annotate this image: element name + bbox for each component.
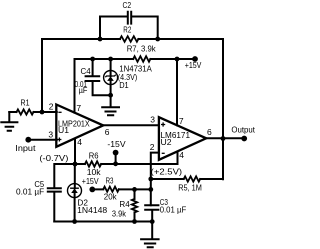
svg-text:0.01 µF: 0.01 µF	[160, 205, 187, 215]
wire: U1 pin7 up to 4.3V rail	[74, 59, 76, 113]
svg-text:Output: Output	[231, 124, 255, 134]
wire: U2 output	[206, 137, 244, 139]
node: R4 bottom	[132, 219, 137, 224]
svg-text:0.01 µF: 0.01 µF	[16, 187, 44, 197]
node: -15V terminal	[113, 150, 119, 156]
svg-text:3: 3	[150, 114, 155, 124]
op-amp U1 LMP201X	[56, 105, 103, 147]
wire: U1 pin4 down	[74, 139, 76, 165]
ground (D1/C4)	[102, 95, 119, 115]
svg-text:U2: U2	[161, 137, 172, 147]
U2 plus mark	[161, 122, 165, 126]
wire: C2 feedback loop top	[100, 17, 158, 40]
resistor R3	[92, 188, 151, 190]
node: -15V junction	[113, 161, 118, 166]
node: C2 right junction	[155, 37, 160, 42]
ground (R1)	[1, 112, 17, 131]
node: D2 bottom junction	[72, 219, 77, 224]
resistor R7	[133, 56, 150, 62]
svg-text:3.9k: 3.9k	[112, 208, 127, 218]
svg-text:20k: 20k	[104, 191, 117, 201]
node: output junction	[221, 136, 226, 141]
wire: 4.3V rail	[75, 58, 196, 60]
svg-text:6: 6	[207, 127, 212, 137]
svg-text:C4: C4	[81, 66, 91, 76]
svg-text:(+2.5V): (+2.5V)	[151, 166, 183, 176]
resistor R5	[184, 176, 201, 181]
node: D1 bottom	[108, 93, 113, 98]
node: R3/R4 junction	[132, 187, 137, 192]
U2 minus mark	[162, 152, 165, 154]
resistor R6	[85, 161, 101, 166]
svg-text:+15V: +15V	[82, 176, 99, 186]
node: Output terminal	[241, 136, 247, 142]
svg-text:R4: R4	[119, 199, 129, 209]
svg-text:R2: R2	[123, 25, 131, 35]
svg-text:-15V: -15V	[107, 139, 125, 149]
wire: bottom rail	[54, 221, 152, 223]
capacitor C4	[86, 59, 111, 95]
resistor R2	[120, 36, 138, 42]
svg-text:(-0.7V): (-0.7V)	[39, 153, 68, 163]
svg-text:D1: D1	[119, 80, 129, 90]
resistor R1	[9, 111, 57, 113]
svg-text:2: 2	[150, 142, 155, 152]
svg-text:2: 2	[49, 101, 54, 111]
ground (C3)	[141, 222, 159, 248]
wire: U2 pin2 node vertical	[151, 153, 159, 206]
svg-text:U1: U1	[58, 125, 69, 135]
svg-text:1N4148: 1N4148	[77, 205, 107, 215]
svg-text:4: 4	[179, 150, 184, 160]
svg-text:R7, 3.9k: R7, 3.9k	[127, 43, 157, 53]
diode D2 1N4148	[74, 164, 76, 222]
op-amp U2 LM6171	[159, 117, 206, 160]
wire: U1 output to U2 pin3	[103, 124, 159, 126]
svg-text:4: 4	[77, 137, 82, 147]
wire: R5 feedback	[151, 178, 223, 180]
svg-text:7: 7	[76, 103, 81, 113]
capacitor C2	[128, 12, 131, 24]
svg-text:6: 6	[105, 127, 110, 137]
zener diode D1 1N4731A	[104, 71, 118, 85]
wire: main feedback rail y=38.7	[42, 39, 223, 179]
node: C4 top	[90, 57, 95, 62]
wire: -15V rail	[75, 152, 178, 165]
wire: U2 pin7 to +15V	[176, 59, 178, 125]
node: +15V terminal	[192, 56, 198, 62]
U1 plus mark	[57, 138, 61, 142]
svg-text:+15V: +15V	[185, 60, 202, 70]
node: inverting input junction	[40, 110, 45, 115]
svg-text:µF: µF	[79, 85, 88, 95]
resistor R4	[134, 189, 136, 221]
svg-text:R3: R3	[106, 176, 114, 186]
node: +15V terminal (R3)	[89, 187, 95, 193]
node: D1 top	[108, 57, 113, 62]
node: R5 junction	[148, 177, 153, 182]
wire: input to pin 3	[28, 139, 57, 141]
node: bottom rail / C3 / ground junction	[150, 219, 155, 224]
svg-text:C2: C2	[123, 0, 132, 10]
capacitor C5	[48, 164, 75, 222]
node: C2 left junction	[98, 37, 103, 42]
node: +15V junction	[175, 57, 180, 62]
node: R3 junction on pin2 line	[148, 187, 153, 192]
capacitor C3	[145, 205, 158, 221]
svg-text:7: 7	[179, 116, 184, 126]
svg-text:R6: R6	[89, 150, 99, 160]
svg-text:R1: R1	[21, 98, 30, 108]
svg-text:R5, 1M: R5, 1M	[178, 183, 202, 193]
U1 minus mark	[58, 111, 61, 113]
node: pin4 4-way junction	[73, 162, 78, 167]
svg-text:Input: Input	[15, 143, 36, 153]
node: Input terminal	[25, 137, 31, 143]
svg-text:3: 3	[48, 130, 53, 140]
